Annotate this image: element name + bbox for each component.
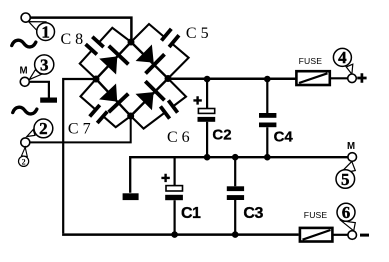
pointer for label 1 <box>29 22 46 32</box>
ground (middle) <box>123 193 139 200</box>
wire from terminal 2 to bridge bottom vertex <box>29 116 131 142</box>
C2 plus sign <box>193 96 201 104</box>
small pointer for small label 2 <box>22 147 28 156</box>
capacitor C6 outer loop <box>131 79 186 129</box>
small label circle 2 <box>19 156 29 166</box>
plus sign (terminal 4) <box>357 73 366 82</box>
C1 plus sign <box>161 174 169 182</box>
capacitor C8 plates <box>83 34 106 56</box>
label circle 6 <box>337 203 355 221</box>
label circle 1 <box>37 23 55 41</box>
node C4 top <box>264 76 271 83</box>
wire fuse F1 to terminal 4 <box>331 77 349 79</box>
terminal 2 <box>21 138 30 147</box>
diode D1 (top-left, cathode at top vertex) <box>98 44 130 75</box>
node bottom vertex <box>127 113 134 120</box>
svg-text:C4: C4 <box>274 129 294 146</box>
fuse F1 <box>296 71 329 85</box>
capacitor C5 outer loop <box>131 24 189 79</box>
pointer for label 5 <box>340 161 356 173</box>
node top vertex <box>128 39 135 46</box>
terminal 4 <box>348 74 357 83</box>
wire negative bottom rail <box>62 233 299 236</box>
svg-text:C 8: C 8 <box>61 31 84 48</box>
label circle 2 <box>34 119 53 138</box>
svg-text:C1: C1 <box>181 205 201 222</box>
node C1 bottom <box>171 231 178 238</box>
capacitor C1 (electrolytic) <box>166 186 183 191</box>
wire bridge left vertex to negative rail <box>63 79 96 233</box>
svg-text:C2: C2 <box>212 127 231 144</box>
terminal 6 <box>348 231 357 240</box>
node left vertex <box>93 76 100 83</box>
svg-text:C 5: C 5 <box>186 25 209 42</box>
capacitor C7 outer loop <box>81 79 131 127</box>
wire C1 leads <box>174 157 176 234</box>
node right vertex <box>165 75 172 82</box>
svg-text:1: 1 <box>41 22 50 41</box>
capacitor C3 <box>227 186 244 191</box>
label circle 3 <box>35 55 54 74</box>
label circle 4 <box>333 48 351 66</box>
pointer for label 3 <box>29 70 41 80</box>
node C4 bottom <box>264 154 271 161</box>
svg-text:4: 4 <box>338 48 347 67</box>
diode D3 (bottom-left, cathode at bottom vertex) <box>98 82 130 113</box>
AC tilde 1 <box>12 40 36 47</box>
wire from terminal 1 to bridge top vertex <box>30 18 132 42</box>
svg-text:C 7: C 7 <box>68 120 91 137</box>
wire middle rail to terminal 5 and down to ground <box>130 157 348 193</box>
svg-text:5: 5 <box>341 170 350 189</box>
svg-text:FUSE: FUSE <box>299 56 323 66</box>
svg-text:2: 2 <box>22 157 26 166</box>
svg-text:M: M <box>20 65 28 76</box>
svg-text:6: 6 <box>342 203 351 222</box>
svg-text:M: M <box>347 141 355 152</box>
minus sign (terminal 6) <box>360 234 369 237</box>
wire fuse F2 to terminal 6 <box>333 234 348 236</box>
terminal 5 <box>348 153 357 162</box>
terminal 1 <box>21 13 30 22</box>
wire from terminal 3 to ground <box>29 82 49 98</box>
bridge rectifier inner diamond wires <box>96 42 168 116</box>
svg-text:2: 2 <box>39 119 48 138</box>
svg-text:FUSE: FUSE <box>304 210 328 220</box>
capacitor C6 plates <box>158 98 180 121</box>
AC tilde 2 <box>13 107 37 114</box>
svg-text:C 6: C 6 <box>167 129 190 146</box>
ground (terminal 3) <box>40 98 57 103</box>
pointer for label 2 <box>27 130 35 137</box>
capacitor C4 <box>259 113 276 118</box>
node C3 top <box>232 154 239 161</box>
node C2 bottom <box>204 154 211 161</box>
svg-text:3: 3 <box>40 55 49 74</box>
capacitor C5 plates <box>159 27 181 50</box>
pointer for label 4 <box>346 64 353 74</box>
wire C3 leads <box>234 157 236 234</box>
capacitor C2 (electrolytic) <box>198 109 214 114</box>
diode D4 (bottom-right, cathode at right vertex) <box>134 80 166 112</box>
terminal 3 <box>20 77 29 86</box>
capacitor C7 plates <box>87 103 109 126</box>
pointer for label 6 <box>341 221 355 231</box>
fuse F2 <box>300 228 333 242</box>
label circle 5 <box>336 170 355 189</box>
node C3 bottom <box>232 231 239 238</box>
wire C4 leads <box>266 79 268 157</box>
wire C2 leads <box>206 79 208 157</box>
diode D2 (top-right, cathode at right vertex) <box>134 43 166 75</box>
capacitor C8 outer loop <box>80 28 131 79</box>
node C2 top <box>204 76 211 83</box>
wire positive rail from bridge right vertex to fuse F1 <box>168 78 296 81</box>
svg-text:C3: C3 <box>243 205 263 222</box>
